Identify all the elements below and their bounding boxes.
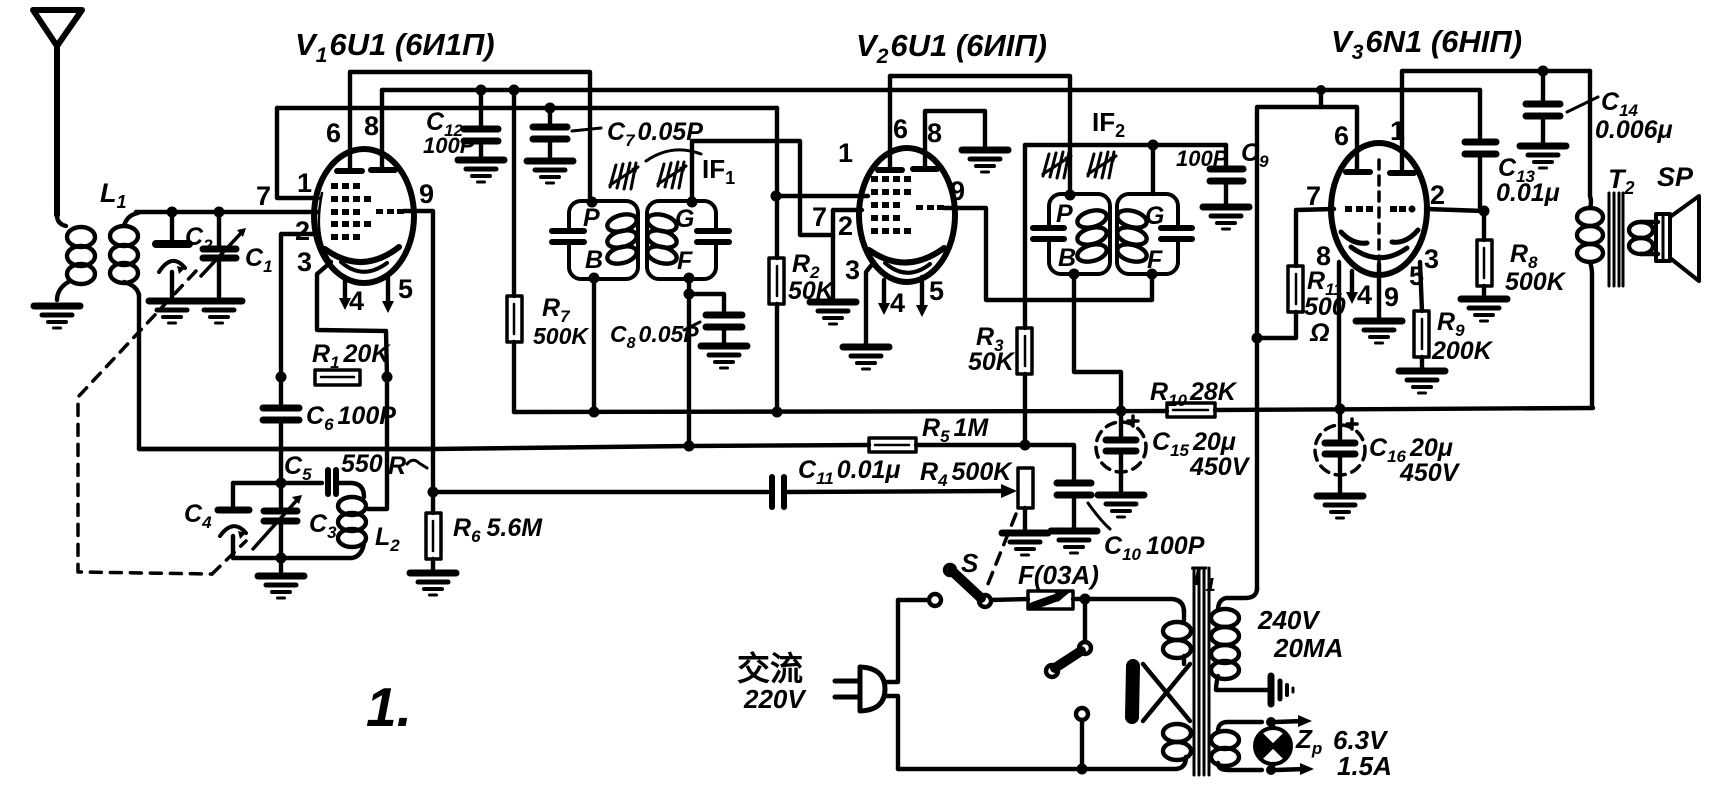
svg-text:P: P xyxy=(1056,200,1073,228)
wire: G stem xyxy=(1151,145,1155,194)
svg-text:R65.6M: R65.6M xyxy=(453,514,543,546)
pin 9 cathode to ground xyxy=(1377,264,1381,318)
wire: L1 secondary bottom down to AVC line xyxy=(139,294,434,449)
node: C15 on bus xyxy=(1116,406,1127,417)
svg-text:C6100P: C6100P xyxy=(306,402,396,434)
svg-text:7: 7 xyxy=(256,181,271,211)
svg-text:8: 8 xyxy=(364,111,379,141)
ground (HT secondary, sideways) xyxy=(1271,676,1293,704)
switch second pole xyxy=(1046,599,1091,769)
node: C13/R8 xyxy=(1479,206,1490,217)
cathode arcs V1 xyxy=(325,247,399,262)
ground (R6) xyxy=(410,573,456,595)
heater feed arrows xyxy=(1276,715,1314,775)
node: R2 on bus xyxy=(772,407,783,418)
svg-text:450V: 450V xyxy=(1399,459,1461,487)
svg-text:5: 5 xyxy=(929,276,944,306)
pin 1 plate bar V3 xyxy=(1390,71,1590,173)
heater arrow pin5 V2 xyxy=(916,277,928,317)
svg-text:0.006μ: 0.006μ xyxy=(1595,116,1673,144)
grid rows V1 xyxy=(331,183,404,240)
pin 6 plate bar V3 xyxy=(1257,107,1370,590)
heater arrow pin4 V2 xyxy=(878,280,890,315)
wire plate line down to T2 xyxy=(1588,71,1592,196)
svg-text:9: 9 xyxy=(1384,282,1399,312)
pin 2 wire to R8 xyxy=(1426,209,1484,211)
IF1 primary cap xyxy=(552,230,584,243)
IF1 primary winding xyxy=(605,211,638,266)
svg-text:B: B xyxy=(1058,244,1076,272)
B+ bus xyxy=(514,411,1167,412)
ground (C14) xyxy=(1520,146,1566,168)
ground (C12) xyxy=(458,160,504,182)
capacitor C8 xyxy=(684,294,742,343)
svg-text:1.5A: 1.5A xyxy=(1337,751,1392,781)
svg-text:6: 6 xyxy=(893,114,908,144)
V3 grid row xyxy=(1345,206,1416,213)
svg-text:G: G xyxy=(1145,202,1164,230)
ground (V2 pin8) xyxy=(962,150,1008,172)
ground (antenna coil) xyxy=(34,306,80,328)
svg-text:0.01μ: 0.01μ xyxy=(1496,179,1560,207)
wire: L1 secondary top to V1 grid xyxy=(136,210,318,214)
IF1 secondary box xyxy=(647,201,716,279)
resistor R3 xyxy=(1017,328,1032,444)
svg-text:100P: 100P xyxy=(423,133,475,158)
pin 8 bar xyxy=(371,90,395,170)
coil L1 primary xyxy=(57,215,95,300)
wire: IF2 secondary top line xyxy=(1025,143,1226,147)
wire: left end down to R3 xyxy=(1023,145,1027,328)
dashed link S to R4 xyxy=(988,514,1016,584)
capacitor C11 xyxy=(772,477,1017,507)
ground (R9) xyxy=(1399,371,1445,393)
bottom mains wire xyxy=(898,757,1186,769)
ground (V2 cathode) xyxy=(843,347,889,369)
heater arrow pin4 V3 xyxy=(1346,271,1358,304)
ground (C1) xyxy=(196,301,242,323)
node: IF2 B bottom xyxy=(1069,269,1080,280)
svg-text:240V: 240V xyxy=(1257,605,1321,635)
capacitor C5 xyxy=(328,470,364,497)
pin 7 wire to R11 xyxy=(1296,209,1334,266)
ground (C15) xyxy=(1098,495,1144,517)
resistor R7 with line down from screen bus xyxy=(507,90,522,412)
svg-text:550: 550 xyxy=(341,450,383,478)
capacitor C9 xyxy=(1210,145,1243,204)
ground (R4) xyxy=(1002,533,1048,555)
IF1 gang arc xyxy=(646,150,701,161)
svg-text:C110.01μ: C110.01μ xyxy=(798,456,900,488)
grid rows V2 xyxy=(871,176,944,234)
svg-text:B: B xyxy=(585,246,603,274)
wire: F down to AVC xyxy=(687,278,691,445)
capacitor C2 xyxy=(156,212,189,297)
antenna xyxy=(33,10,82,215)
node: detector junction xyxy=(1020,440,1031,451)
svg-text:G: G xyxy=(675,205,694,233)
svg-text:5: 5 xyxy=(398,274,413,304)
svg-text:50K: 50K xyxy=(788,277,836,305)
resistor R9 xyxy=(1414,311,1429,368)
node: C8 branch xyxy=(684,289,695,300)
wire: V2 plate top link to IF2 xyxy=(890,76,1070,194)
svg-text:450V: 450V xyxy=(1189,453,1251,481)
pin 7 stub from grid bus xyxy=(277,108,318,198)
resistor R5 xyxy=(869,438,916,452)
pin 2 stub xyxy=(281,234,318,404)
resistor R6 xyxy=(426,513,441,570)
node: R1 left xyxy=(276,372,287,383)
capacitor C14 xyxy=(1526,71,1598,143)
svg-text:9: 9 xyxy=(950,176,965,206)
capacitor C6 xyxy=(263,408,299,481)
svg-text:3: 3 xyxy=(1424,244,1439,274)
bus: grid3 line xyxy=(277,106,777,110)
wire: B down to B+ bus xyxy=(592,278,596,412)
svg-text:F: F xyxy=(677,247,693,275)
svg-text:R1028K: R1028K xyxy=(1150,378,1238,410)
node: bottom xyxy=(1077,764,1088,775)
resistor R2 line xyxy=(775,108,779,258)
svg-text:C10100P: C10100P xyxy=(1104,532,1205,564)
svg-text:1.: 1. xyxy=(366,676,412,738)
node: C14 on plate line xyxy=(1538,66,1549,77)
svg-text:7: 7 xyxy=(1306,181,1321,211)
IF1 tuning slugs xyxy=(610,163,638,189)
svg-text:7: 7 xyxy=(812,202,827,232)
IF2 primary cap xyxy=(1033,227,1064,240)
wire: V2 pin9 screen to IF2 return xyxy=(944,208,1152,300)
wire R1 right down to L2 tap xyxy=(368,377,387,509)
node: IF2 P top xyxy=(1065,190,1076,201)
svg-text:F(03A): F(03A) xyxy=(1018,560,1099,590)
svg-text:9: 9 xyxy=(419,179,434,209)
IF2 secondary box xyxy=(1117,194,1178,274)
svg-text:4: 4 xyxy=(349,286,364,316)
node: B on bus xyxy=(589,407,600,418)
ground (C16) xyxy=(1317,496,1363,518)
pin 8 line down to bus xyxy=(1337,262,1341,409)
svg-text:500K: 500K xyxy=(533,323,589,349)
V3 center grid dashed xyxy=(1377,160,1381,266)
node: lamp top xyxy=(1266,717,1276,727)
volume wire with C11 xyxy=(434,490,768,494)
svg-text:5: 5 xyxy=(1409,261,1424,291)
heater arrow pin5 V1 xyxy=(382,277,394,313)
node: R7 line on screen bus xyxy=(509,85,520,96)
svg-text:交流: 交流 xyxy=(737,650,803,687)
resistor R11 xyxy=(1257,266,1303,338)
node: C7 on grid3 bus xyxy=(545,103,556,114)
resistor R10 xyxy=(1167,403,1215,417)
node: IF1 B bottom xyxy=(589,273,600,284)
capacitor C7 xyxy=(533,108,601,158)
node: C12 on screen bus xyxy=(476,85,487,96)
IF2 secondary cap xyxy=(1161,227,1192,240)
svg-text:1: 1 xyxy=(297,168,312,198)
ground (C8) xyxy=(701,346,747,368)
svg-text:2: 2 xyxy=(295,216,310,246)
node: R1 right xyxy=(382,372,393,383)
T2 secondary winding xyxy=(1629,222,1658,254)
heater arrow pin4 V1 xyxy=(339,281,351,310)
tube V1 envelope xyxy=(314,149,414,283)
IF1 primary box xyxy=(569,201,638,279)
svg-text:4: 4 xyxy=(1357,280,1372,310)
resistor R8 xyxy=(1477,211,1492,296)
cathode arcs V3 xyxy=(1341,232,1367,243)
cathode lead V2 to ground xyxy=(866,262,874,344)
cathode lead to pin3 xyxy=(317,262,387,377)
speaker SP xyxy=(1656,196,1699,281)
capacitor C13 xyxy=(1465,90,1496,211)
pin 8 bar V2 xyxy=(913,111,985,169)
AVC wire with R5 xyxy=(139,445,869,449)
IF2 primary winding xyxy=(1075,207,1108,264)
potentiometer R4 xyxy=(1018,468,1033,530)
capacitor C12 xyxy=(464,90,498,157)
inner support line V1 xyxy=(319,193,331,262)
svg-text:1: 1 xyxy=(838,138,853,168)
wire: V2 pin2 down to ground xyxy=(833,210,862,299)
dashed gang link xyxy=(78,271,246,574)
node: C16 on bus xyxy=(1335,404,1346,415)
tube V2 envelope xyxy=(859,148,955,282)
svg-text:100P: 100P xyxy=(1176,146,1228,171)
node: tank bottom xyxy=(276,553,287,564)
svg-text:F: F xyxy=(1147,246,1163,274)
bus: V1 plate to IF1 xyxy=(350,72,590,201)
ground (C7) xyxy=(527,161,573,183)
svg-text:S: S xyxy=(961,548,979,578)
node: F line on AVC xyxy=(684,441,695,452)
svg-text:SP: SP xyxy=(1657,162,1694,192)
pin 6 plate bar V2 xyxy=(878,76,902,170)
svg-text:C70.05P: C70.05P xyxy=(607,118,703,150)
node: R11 to B line xyxy=(1252,333,1263,344)
ground (C2) xyxy=(149,301,195,323)
ground (C10) xyxy=(1051,531,1097,553)
svg-text:50K: 50K xyxy=(968,348,1016,376)
ground (C9) xyxy=(1203,207,1249,229)
T2 core xyxy=(1609,193,1623,286)
transformer T1 primary xyxy=(1132,610,1191,760)
T2 primary winding xyxy=(1577,196,1603,408)
mains plug xyxy=(835,600,898,769)
IF2 primary box xyxy=(1049,194,1110,274)
coil L2 xyxy=(338,497,366,558)
node: IF1 G top xyxy=(687,197,698,208)
svg-text:R51M: R51M xyxy=(922,414,989,446)
pilot lamp Zp xyxy=(1255,722,1291,770)
svg-text:2: 2 xyxy=(1430,180,1445,210)
svg-text:1: 1 xyxy=(1390,116,1405,146)
svg-text:6: 6 xyxy=(326,118,341,148)
pin 9 wire to oscillator grid leak xyxy=(404,211,433,513)
transformer T1 core xyxy=(1194,568,1209,775)
node: C2 tap xyxy=(167,207,178,218)
tank bottom wire xyxy=(233,556,352,560)
wire: IF2 B to B+ bus xyxy=(1074,274,1121,411)
tank top wire xyxy=(233,481,322,485)
svg-text:500K: 500K xyxy=(1505,268,1567,296)
capacitor C4 (left leg) xyxy=(218,483,249,558)
svg-text:R120K: R120K xyxy=(312,340,391,372)
node: lamp bottom xyxy=(1266,765,1276,775)
wire: G up and over to V2 grid xyxy=(692,141,833,235)
svg-text:R4500K: R4500K xyxy=(920,458,1013,490)
T1 heater secondary 6.3V xyxy=(1211,722,1262,770)
svg-text:8: 8 xyxy=(927,118,942,148)
svg-text:20MA: 20MA xyxy=(1273,633,1343,663)
capacitor C10 xyxy=(1057,483,1110,529)
bus: screen B+ line xyxy=(382,88,1480,92)
IF1 secondary cap xyxy=(697,230,729,243)
cathode arcs V2 xyxy=(869,248,944,263)
svg-text:R: R xyxy=(388,452,406,480)
capacitor C16 electrolytic xyxy=(1315,409,1365,493)
ground (V3 pin9) xyxy=(1356,321,1402,343)
svg-text:500: 500 xyxy=(1304,293,1346,321)
fuse F xyxy=(1028,590,1085,609)
capacitor C1 (variable) xyxy=(201,212,246,297)
svg-text:200K: 200K xyxy=(1431,337,1494,365)
svg-text:220V: 220V xyxy=(743,684,807,714)
capacitor C3 (variable) xyxy=(253,483,302,558)
svg-text:3: 3 xyxy=(845,255,860,285)
svg-text:Ω: Ω xyxy=(1309,319,1330,347)
IF2 tuning slugs xyxy=(1043,152,1071,178)
T1 HT secondary 240V xyxy=(1211,588,1268,690)
IF1 secondary winding xyxy=(645,211,678,266)
wire to C10 xyxy=(1025,445,1074,480)
svg-text:P: P xyxy=(583,204,600,232)
capacitor C15 electrolytic xyxy=(1096,411,1146,492)
resistor R1 xyxy=(315,370,360,385)
ground (R8) xyxy=(1461,299,1507,321)
ground (V2 pin2) xyxy=(810,302,856,324)
wire: tap to V2 grid3 xyxy=(776,194,868,198)
node: after fuse xyxy=(1080,594,1091,605)
node: R6 top / C11 line xyxy=(428,487,439,498)
pin 6 plate bar xyxy=(337,72,362,171)
node: C1 tap xyxy=(214,207,225,218)
tube V3 envelope xyxy=(1331,143,1427,275)
svg-text:4: 4 xyxy=(890,288,905,318)
svg-text:3: 3 xyxy=(297,247,312,277)
switch S xyxy=(898,565,1028,607)
svg-text:6: 6 xyxy=(1334,121,1349,151)
node: IF1 F bottom xyxy=(684,273,695,284)
pin 5 wire to R9 xyxy=(1420,262,1422,311)
link from screen bus xyxy=(1319,90,1323,107)
IF2 secondary winding xyxy=(1115,207,1148,264)
node: R2 tap to V2 xyxy=(771,191,782,202)
ground (tank) xyxy=(279,558,283,572)
wire to T1 primary top xyxy=(1085,599,1184,612)
node: IF1 P top xyxy=(587,197,598,208)
svg-text:2: 2 xyxy=(838,211,853,241)
node: tank top xyxy=(276,478,287,489)
node: G stem xyxy=(1148,140,1159,151)
node: IF2 F bottom xyxy=(1147,269,1158,280)
coil L1 secondary xyxy=(110,213,139,296)
